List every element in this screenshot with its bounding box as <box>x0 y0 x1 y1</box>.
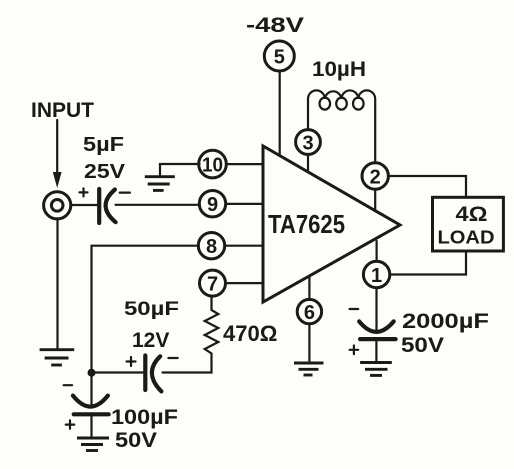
wire pin 9 to U1 <box>226 203 263 205</box>
svg-text:470Ω: 470Ω <box>223 321 277 346</box>
wire C1 to pin 9 <box>116 204 200 206</box>
ground under pin 6 <box>294 324 324 375</box>
ground under C4 <box>360 339 392 375</box>
svg-text:2000µF: 2000µF <box>402 310 489 333</box>
wire pin 2 to U1 <box>374 189 376 210</box>
svg-text:10: 10 <box>202 154 223 176</box>
svg-text:5: 5 <box>274 47 285 69</box>
junction node A <box>88 369 96 377</box>
svg-text:2: 2 <box>370 166 381 188</box>
svg-text:LOAD: LOAD <box>438 227 495 248</box>
wire pin 7 to U1 <box>226 282 264 284</box>
pin 7 <box>200 270 226 296</box>
pin 6 <box>297 299 321 324</box>
connector J1 input jack <box>44 192 71 219</box>
pin 8 <box>198 233 224 259</box>
ground under C2 <box>77 414 109 450</box>
ground under jack <box>40 218 75 365</box>
svg-text:7: 7 <box>207 273 218 295</box>
svg-text:50V: 50V <box>115 429 157 452</box>
capacitor C2 100uF 50V <box>64 377 109 429</box>
wire pin 7 down to R1 <box>210 296 212 310</box>
svg-text:100µF: 100µF <box>111 406 178 429</box>
wire U1 to pin 6 <box>308 276 310 300</box>
svg-text:9: 9 <box>207 194 218 216</box>
pin 5 <box>264 41 294 71</box>
capacitor C1 5uF 25V <box>80 188 130 223</box>
wire pin 8 left and down to node A <box>92 246 199 369</box>
svg-text:3: 3 <box>302 132 313 154</box>
capacitor C4 2000uF 50V <box>350 309 396 354</box>
load box <box>433 197 504 251</box>
wire pin 1 to C4 <box>375 288 377 330</box>
svg-text:TA7625: TA7625 <box>268 209 345 239</box>
wire R1 down to node wire <box>163 354 212 373</box>
wire pin 1 to load <box>390 251 466 275</box>
op-amp U1 <box>263 146 400 302</box>
svg-text:50V: 50V <box>401 334 444 357</box>
wire pin 3 to U1 <box>307 154 309 172</box>
ground at pin 10 <box>145 164 200 190</box>
svg-text:12V: 12V <box>132 329 169 352</box>
input arrow <box>53 120 62 188</box>
wire jack to C1 <box>71 204 98 206</box>
inductor L1 10uH <box>308 90 375 163</box>
pin 1 <box>363 261 389 287</box>
capacitor C3 50uF 12V <box>127 356 178 392</box>
svg-text:1: 1 <box>371 265 382 287</box>
svg-text:5µF: 5µF <box>83 134 124 156</box>
svg-text:-48V: -48V <box>246 14 304 37</box>
svg-text:INPUT: INPUT <box>31 99 94 122</box>
pin 9 <box>199 191 225 217</box>
svg-text:25V: 25V <box>84 161 126 183</box>
wire pin 10 to U1 <box>226 163 263 165</box>
svg-text:50µF: 50µF <box>124 299 179 320</box>
pin 3 <box>296 130 321 155</box>
svg-text:8: 8 <box>206 236 217 258</box>
pin 2 <box>362 163 388 189</box>
svg-text:10µH: 10µH <box>312 58 366 81</box>
svg-text:6: 6 <box>304 302 315 324</box>
resistor R1 470 ohm <box>205 310 219 354</box>
svg-text:4Ω: 4Ω <box>456 203 488 226</box>
wire U1 to pin 1 <box>376 241 378 261</box>
pin 10 <box>199 150 227 178</box>
wire node A to C3 <box>92 371 144 373</box>
wire pin 5 to U1 <box>279 71 281 156</box>
wire pin 8 to U1 <box>225 245 263 247</box>
wire pin 2 to load <box>388 176 466 197</box>
